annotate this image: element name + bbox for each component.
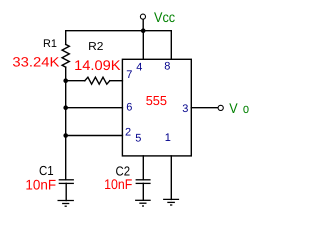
svg-text:3: 3 [182,103,188,115]
svg-text:2: 2 [125,127,131,139]
svg-text:10nF: 10nF [104,176,132,192]
svg-text:R1: R1 [43,38,57,50]
svg-text:6: 6 [126,102,132,114]
svg-text:1: 1 [165,132,171,144]
svg-text:14.09K: 14.09K [74,57,121,73]
svg-text:8: 8 [164,61,170,73]
svg-text:5: 5 [135,133,141,145]
svg-text:R2: R2 [88,41,103,53]
svg-text:o: o [243,101,249,116]
svg-text:555: 555 [146,93,167,108]
svg-text:33.24K: 33.24K [12,55,59,70]
svg-text:V: V [229,100,238,116]
svg-text:10nF: 10nF [25,177,56,193]
svg-text:4: 4 [136,62,142,74]
svg-text:7: 7 [126,69,132,81]
svg-text:Vcc: Vcc [154,9,175,25]
